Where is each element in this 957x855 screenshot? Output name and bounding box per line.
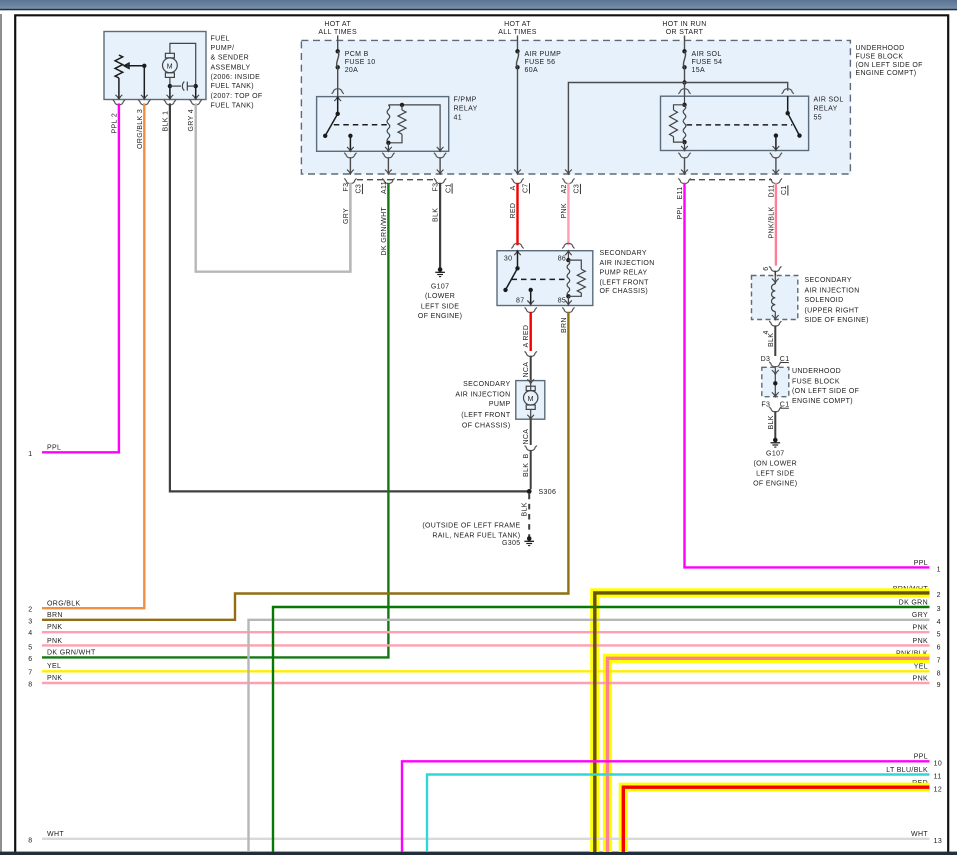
- svg-text:PNK: PNK: [47, 675, 62, 682]
- svg-text:2: 2: [937, 592, 941, 599]
- svg-text:8: 8: [937, 671, 941, 678]
- svg-text:ALL TIMES: ALL TIMES: [498, 29, 537, 36]
- pump relay armature dashed link: [512, 278, 567, 280]
- underhood fuse block pass-through box (dashed): [762, 367, 789, 396]
- svg-text:RED: RED: [510, 203, 517, 219]
- fuel pump & sender assembly box: [104, 32, 206, 100]
- svg-text:SOLENOID: SOLENOID: [805, 297, 844, 304]
- svg-text:2: 2: [28, 607, 32, 614]
- svg-text:30: 30: [504, 255, 513, 262]
- wire PPL row10 to bottom: [402, 761, 930, 852]
- svg-text:(OUTSIDE OF LEFT FRAME: (OUTSIDE OF LEFT FRAME: [422, 523, 520, 530]
- svg-text:G107: G107: [431, 283, 450, 290]
- wire BRN relay85 to row 3: [42, 312, 568, 620]
- svg-text:ASSEMBLY: ASSEMBLY: [211, 64, 251, 71]
- svg-text:LEFT SIDE: LEFT SIDE: [421, 303, 459, 310]
- svg-text:10: 10: [934, 761, 943, 768]
- wire BLK S306 to G305 (dashed): [528, 494, 530, 537]
- wire RED A/C7 to relay 30: [516, 183, 518, 246]
- fuse AIR SOL FUSE 54: [684, 36, 686, 52]
- fuse block exit stack x=440.1: [434, 153, 446, 158]
- svg-text:PNK/BLK: PNK/BLK: [768, 206, 775, 238]
- relay 41 switch output pin: [348, 134, 352, 138]
- svg-text:G107: G107: [766, 451, 785, 458]
- svg-text:PCM B: PCM B: [345, 51, 369, 58]
- svg-text:OF ENGINE): OF ENGINE): [753, 481, 797, 488]
- wire DK GRN/WHT A11 to row 6: [42, 183, 388, 658]
- svg-text:RELAY: RELAY: [814, 106, 838, 113]
- relay 55 switch blade: [788, 113, 800, 135]
- svg-text:GRY 4: GRY 4: [188, 109, 195, 132]
- svg-text:D3: D3: [761, 356, 771, 363]
- svg-text:60A: 60A: [525, 67, 539, 74]
- wire LT BLU/BLK row11 to bottom: [427, 775, 930, 853]
- svg-text:BRN: BRN: [47, 612, 63, 619]
- svg-text:FUSE 56: FUSE 56: [525, 59, 556, 66]
- relay 41 switch common: [334, 97, 341, 101]
- svg-text:41: 41: [454, 115, 463, 122]
- svg-text:SECONDARY: SECONDARY: [600, 250, 647, 257]
- svg-text:AIR INJECTION: AIR INJECTION: [455, 391, 510, 398]
- svg-text:55: 55: [814, 115, 823, 122]
- svg-text:C1: C1: [781, 185, 788, 195]
- pump motor bottom wire: [530, 409, 532, 418]
- connector cup pump A: [525, 351, 537, 356]
- wire GRY pin4 to relay41 F3/C3: [196, 103, 351, 271]
- svg-text:DK GRN/WHT: DK GRN/WHT: [381, 207, 388, 256]
- svg-text:GRY: GRY: [343, 208, 350, 224]
- relay 55 switch common: [787, 96, 789, 113]
- svg-text:AIR SOL: AIR SOL: [814, 97, 844, 104]
- svg-text:9: 9: [937, 682, 941, 689]
- fuse PCM B FUSE 10: [337, 36, 339, 52]
- wire NCA to pump motor: [530, 356, 532, 381]
- svg-text:OF ENGINE): OF ENGINE): [418, 313, 462, 320]
- svg-text:DK GRN: DK GRN: [899, 599, 928, 606]
- svg-text:8: 8: [28, 681, 32, 688]
- wire PPL fuel pump pin2 to row 1: [42, 103, 119, 452]
- svg-text:C3: C3: [356, 184, 363, 194]
- svg-text:FUEL: FUEL: [211, 36, 230, 43]
- svg-text:OR START: OR START: [666, 29, 704, 36]
- svg-text:RELAY: RELAY: [454, 106, 478, 113]
- motor M fuel pump: [163, 58, 178, 73]
- connector C1/C3 dashed boundary at A11..F3: [357, 179, 436, 181]
- svg-text:F/PMP: F/PMP: [454, 97, 477, 104]
- wire motor top loop: [170, 43, 196, 86]
- F/PMP relay 41 box: [317, 97, 449, 152]
- wire air sol fuse to junction: [684, 67, 686, 82]
- svg-text:FUSE 54: FUSE 54: [692, 59, 723, 66]
- pump motor symbol: [527, 379, 534, 383]
- svg-text:BLK: BLK: [522, 502, 529, 516]
- svg-text:(ON LEFT SIDE OF: (ON LEFT SIDE OF: [856, 62, 923, 69]
- wire junction down to relay 55 coil: [684, 83, 686, 97]
- svg-text:GRY: GRY: [912, 612, 928, 619]
- svg-text:M: M: [528, 396, 534, 403]
- svg-text:87: 87: [516, 297, 525, 304]
- svg-text:F3: F3: [433, 183, 440, 192]
- left window edge line: [0, 14, 2, 855]
- svg-text:E11: E11: [677, 187, 684, 200]
- svg-text:(LEFT FRONT: (LEFT FRONT: [600, 280, 650, 287]
- svg-text:S306: S306: [539, 489, 557, 496]
- secondary air injection solenoid box (dashed): [752, 276, 798, 320]
- node motor-minus: [168, 84, 172, 88]
- connector C1 dashed boundary at E11..D11: [689, 179, 772, 181]
- svg-text:(UPPER RIGHT: (UPPER RIGHT: [805, 307, 860, 314]
- svg-text:PNK: PNK: [913, 625, 928, 632]
- wire BRN/WHT highlighted core: [595, 593, 930, 852]
- ground G107 left: [435, 267, 445, 276]
- wire sender to pin 2: [118, 78, 120, 98]
- wire motor bottom to node: [169, 77, 171, 86]
- svg-text:OF CHASSIS): OF CHASSIS): [462, 422, 511, 429]
- svg-text:A2: A2: [561, 184, 568, 193]
- svg-text:PNK: PNK: [913, 675, 928, 682]
- svg-text:F3: F3: [343, 183, 350, 192]
- highlight band RED circuit (yellow marker): [623, 787, 929, 852]
- wire RED row12 highlighted core: [623, 787, 929, 852]
- wire PNK/BLK highlighted core: [608, 658, 930, 852]
- wire into underhood fuse block pass-through: [774, 366, 776, 367]
- ground G107 right: [771, 438, 781, 447]
- connector cup D3/C1: [769, 362, 781, 367]
- underhood fuse block (dashed box): [301, 40, 850, 174]
- svg-text:BLK 1: BLK 1: [162, 111, 169, 132]
- wire GRY fuse block drop: [349, 183, 351, 272]
- node air sol feed junction: [682, 80, 686, 84]
- svg-text:AIR PUMP: AIR PUMP: [525, 51, 562, 58]
- svg-text:PUMP/: PUMP/: [211, 45, 235, 52]
- svg-text:86: 86: [558, 255, 567, 262]
- svg-text:3: 3: [28, 618, 32, 625]
- svg-text:4: 4: [937, 619, 941, 626]
- relay 41 coil: [387, 105, 390, 143]
- wire BLK pump to S306: [530, 450, 532, 489]
- svg-text:PPL: PPL: [47, 445, 61, 452]
- svg-text:PNK: PNK: [561, 203, 568, 218]
- connector cup pump B: [525, 446, 537, 451]
- svg-text:(2006: INSIDE: (2006: INSIDE: [211, 74, 261, 81]
- svg-text:BRN: BRN: [561, 317, 568, 333]
- node motor-plus loop: [194, 84, 198, 88]
- pump relay parallel resistor: [568, 260, 581, 269]
- sender variable resistor: [115, 55, 123, 78]
- wire BLK pin1 to splice S306: [170, 103, 529, 491]
- svg-text:FUSE 10: FUSE 10: [345, 59, 376, 66]
- svg-text:HOT AT: HOT AT: [324, 21, 351, 28]
- svg-text:FUSE BLOCK: FUSE BLOCK: [856, 53, 904, 60]
- svg-text:(LOWER: (LOWER: [425, 293, 455, 300]
- svg-text:AIR SOL: AIR SOL: [692, 51, 722, 58]
- svg-text:PPL 2: PPL 2: [111, 113, 118, 134]
- wire air pump fuse 56 to connector A/C7: [517, 67, 519, 173]
- svg-text:FUEL TANK): FUEL TANK): [211, 102, 254, 109]
- wire BLK F3/C1 to ground G107: [439, 183, 441, 268]
- svg-text:6: 6: [763, 266, 770, 270]
- connector cup below solenoid: [769, 321, 781, 326]
- ground G305: [524, 536, 534, 545]
- svg-text:4: 4: [28, 630, 32, 637]
- svg-text:20A: 20A: [345, 67, 359, 74]
- sender wiper arrow: [124, 63, 129, 68]
- pump relay switch common pin 30: [514, 251, 521, 255]
- wire PCM B fuse to relay 41: [337, 67, 339, 96]
- svg-text:A11: A11: [381, 181, 388, 194]
- pump relay coil pin 86: [565, 251, 572, 255]
- svg-text:ORG/BLK: ORG/BLK: [47, 601, 81, 608]
- connector cups fuel pump pins 2 3 1 4: [113, 100, 125, 105]
- wire into solenoid: [774, 271, 776, 276]
- capacitor noise suppressor: [170, 85, 181, 87]
- svg-text:11: 11: [934, 774, 942, 781]
- pump relay switch output pin 87: [529, 288, 533, 292]
- svg-text:PPL: PPL: [914, 754, 928, 761]
- svg-text:AIR INJECTION: AIR INJECTION: [600, 260, 655, 267]
- svg-text:A RED: A RED: [523, 325, 530, 348]
- pump relay coil output pin 85: [567, 296, 569, 304]
- fuse block pass-through wire: [772, 370, 779, 374]
- fuse block exit stack x=350.4: [344, 153, 356, 158]
- relay 41 parallel resistor: [401, 105, 403, 110]
- connector cups below fuse block: [344, 178, 356, 183]
- svg-text:ENGINE COMPT): ENGINE COMPT): [856, 70, 917, 77]
- relay 41 top rail to pin: [388, 105, 440, 150]
- svg-text:UNDERHOOD: UNDERHOOD: [856, 45, 905, 52]
- svg-text:(ON LEFT SIDE OF: (ON LEFT SIDE OF: [792, 388, 859, 395]
- svg-text:G305: G305: [502, 540, 521, 547]
- fuse block exit stack x=684.5: [678, 153, 690, 158]
- wire PNK A2/C3 to relay 86: [567, 183, 569, 246]
- connector cup F3/C1 lower: [769, 407, 781, 412]
- wire NCA below pump: [530, 419, 532, 445]
- svg-text:SECONDARY: SECONDARY: [805, 277, 852, 284]
- splice S306: [527, 489, 532, 494]
- svg-text:YEL: YEL: [914, 664, 928, 671]
- svg-text:(2007: TOP OF: (2007: TOP OF: [211, 93, 263, 100]
- node relay 41 coil bottom: [386, 141, 390, 145]
- window title bar sliver: [0, 0, 957, 9]
- svg-text:15A: 15A: [692, 67, 706, 74]
- svg-text:SECONDARY: SECONDARY: [463, 381, 510, 388]
- svg-text:7: 7: [937, 658, 941, 665]
- svg-text:(LEFT FRONT: (LEFT FRONT: [461, 412, 511, 419]
- svg-text:NCA: NCA: [523, 429, 530, 445]
- svg-text:LEFT SIDE: LEFT SIDE: [756, 471, 794, 478]
- svg-text:BLK: BLK: [433, 208, 440, 222]
- wire pin 1 exit: [169, 86, 171, 98]
- relay 55 coil output: [684, 142, 686, 149]
- svg-text:PPL: PPL: [677, 205, 684, 219]
- node relay 41 resistor tap: [400, 103, 404, 107]
- svg-text:5: 5: [28, 644, 32, 651]
- highlight band BRN/WHT circuit (yellow marker) horizontal+vertical: [595, 593, 930, 852]
- svg-text:ALL TIMES: ALL TIMES: [318, 29, 357, 36]
- relay 55 parallel resistor: [674, 105, 685, 110]
- svg-text:6: 6: [28, 656, 32, 663]
- svg-text:LT BLU/BLK: LT BLU/BLK: [886, 767, 928, 774]
- relay 55 armature dashed link: [687, 124, 793, 126]
- wire RED relay87 to pump connector A: [530, 312, 532, 351]
- svg-text:HOT IN RUN: HOT IN RUN: [662, 21, 706, 28]
- svg-text:B: B: [523, 453, 530, 458]
- svg-text:SIDE OF ENGINE): SIDE OF ENGINE): [805, 317, 869, 324]
- svg-text:5: 5: [937, 631, 941, 638]
- connector cups below pump relay: [525, 307, 537, 312]
- svg-text:WHT: WHT: [911, 831, 928, 838]
- relay 55 coil branch: [684, 96, 686, 105]
- svg-text:ORG/BLK 3: ORG/BLK 3: [137, 109, 144, 149]
- svg-text:D11: D11: [768, 184, 775, 197]
- svg-text:1: 1: [937, 567, 941, 574]
- svg-text:1: 1: [28, 451, 32, 458]
- svg-text:RAIL, NEAR FUEL TANK): RAIL, NEAR FUEL TANK): [432, 532, 520, 539]
- svg-text:PUMP RELAY: PUMP RELAY: [600, 270, 648, 277]
- svg-text:HOT AT: HOT AT: [504, 21, 531, 28]
- svg-text:C1: C1: [445, 183, 452, 193]
- svg-text:PNK: PNK: [913, 638, 928, 645]
- node sender wiper junction: [142, 64, 146, 68]
- connector cup solenoid pin 6: [769, 266, 781, 271]
- wire branch to A2/C3 and relay 55 switch: [568, 83, 787, 173]
- fuse block exit stack x=775.9: [770, 153, 782, 158]
- svg-text:BLK: BLK: [768, 333, 775, 347]
- svg-text:UNDERHOOD: UNDERHOOD: [792, 368, 841, 375]
- wire BLK to ground G107 right: [774, 411, 776, 438]
- fuse block exit stack x=388.4: [382, 153, 394, 158]
- wire PPL E11 to right row 1: [685, 183, 930, 568]
- svg-text:FUSE BLOCK: FUSE BLOCK: [792, 378, 840, 385]
- wire pin 4 exit: [195, 86, 197, 98]
- svg-text:12: 12: [934, 786, 943, 793]
- secondary air injection pump box: [516, 381, 545, 420]
- svg-text:PNK: PNK: [47, 638, 62, 645]
- svg-text:6: 6: [937, 645, 941, 652]
- svg-text:BLK: BLK: [768, 415, 775, 429]
- fuse AIR PUMP FUSE 56: [517, 36, 519, 52]
- wire wiper to pin 3: [143, 66, 145, 98]
- highlight band PNK/BLK circuit (yellow marker): [608, 658, 930, 852]
- svg-text:FUEL TANK): FUEL TANK): [211, 83, 254, 90]
- svg-text:PUMP: PUMP: [489, 401, 511, 408]
- svg-text:3: 3: [937, 606, 941, 613]
- svg-text:DK GRN/WHT: DK GRN/WHT: [47, 650, 96, 657]
- svg-text:ENGINE COMPT): ENGINE COMPT): [792, 398, 853, 405]
- svg-text:F3: F3: [761, 402, 770, 409]
- svg-text:C3: C3: [574, 184, 581, 194]
- wire ORG/BLK pin3 to row 2: [42, 103, 144, 608]
- svg-text:PNK: PNK: [47, 624, 62, 631]
- svg-text:8: 8: [28, 837, 32, 844]
- bottom window bar: [0, 852, 957, 855]
- svg-text:& SENDER: & SENDER: [211, 55, 250, 62]
- solenoid coil: [772, 279, 779, 283]
- wire BLK solenoid to D3/C1: [774, 325, 776, 356]
- svg-text:BLK: BLK: [523, 463, 530, 477]
- svg-text:WHT: WHT: [47, 831, 64, 838]
- svg-text:OF CHASSIS): OF CHASSIS): [600, 288, 649, 295]
- wire GRY row4 to bottom: [249, 620, 930, 852]
- svg-text:AIR INJECTION: AIR INJECTION: [805, 287, 860, 294]
- relay 41 armature dashed link: [334, 124, 389, 126]
- svg-text:C7: C7: [523, 183, 530, 193]
- AIR SOL relay 55 box: [661, 96, 809, 150]
- svg-text:13: 13: [934, 838, 943, 845]
- svg-text:(ON LOWER: (ON LOWER: [753, 461, 797, 468]
- svg-text:M: M: [167, 63, 173, 70]
- svg-text:NCA: NCA: [523, 362, 530, 378]
- svg-text:PPL: PPL: [914, 560, 928, 567]
- svg-text:7: 7: [28, 669, 32, 676]
- svg-text:A: A: [510, 185, 517, 190]
- svg-text:YEL: YEL: [47, 663, 61, 670]
- pump relay switch blade: [506, 268, 518, 290]
- secondary air injection pump relay box: [497, 251, 593, 306]
- relay 55 switch output pin: [774, 133, 778, 137]
- relay 41 switch blade: [325, 114, 338, 136]
- wire PNK/BLK D11/C1 to solenoid: [775, 183, 777, 266]
- wire DK GRN row3 to bottom: [273, 607, 930, 852]
